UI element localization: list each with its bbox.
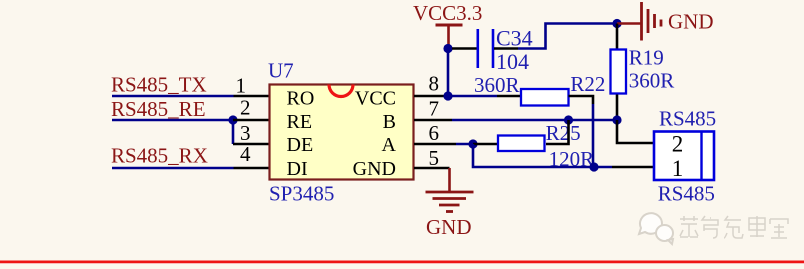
svg-text:RE: RE: [287, 111, 313, 133]
wire A net pin6 to junction: [456, 143, 473, 146]
connector RS485 body: [654, 131, 714, 182]
svg-text:RS485: RS485: [658, 181, 715, 205]
wire pin8 row to R22: [448, 95, 497, 98]
pin 5 stub: [414, 167, 450, 170]
svg-text:RS485_TX: RS485_TX: [111, 73, 207, 97]
svg-text:A: A: [382, 134, 397, 156]
resistor R19 top pin: [616, 24, 619, 49]
svg-text:2: 2: [672, 132, 684, 157]
pin 7 stub: [414, 119, 452, 122]
node VCC junction: [443, 44, 452, 53]
wire A to connector pin1: [612, 166, 653, 169]
pin 4 stub: [234, 167, 270, 170]
svg-text:SP3485: SP3485: [269, 182, 334, 206]
resistor R19 bottom pin: [616, 95, 619, 121]
resistor R25 right stub up to B: [546, 120, 569, 144]
bottom red separator line: [0, 261, 804, 264]
wire VCC down to pin8: [447, 49, 450, 97]
svg-text:2: 2: [240, 96, 251, 120]
junction dot RE/DE: [228, 115, 237, 124]
svg-text:R25: R25: [546, 121, 581, 145]
junction dot B and R19: [612, 115, 621, 124]
svg-text:U7: U7: [268, 59, 294, 83]
op-amp U1 chip body SP3485 U7: [270, 85, 414, 180]
pin 1 stub: [234, 95, 270, 98]
svg-text:RS485_RX: RS485_RX: [111, 144, 208, 168]
resistor R25 left stub: [473, 143, 497, 146]
wire A elbow down and right: [473, 144, 612, 167]
junction dot A: [468, 139, 477, 148]
chip notch arc: [329, 85, 353, 97]
wire branch RE to pin3: [232, 120, 235, 144]
junction dot top rail: [612, 19, 621, 28]
pin 3 stub: [233, 143, 269, 146]
svg-text:1: 1: [236, 74, 247, 98]
svg-text:GND: GND: [668, 10, 714, 34]
svg-text:C34: C34: [496, 25, 533, 50]
wire C34 to top rail: [518, 24, 617, 49]
svg-text:DI: DI: [287, 158, 308, 180]
svg-text:360R: 360R: [474, 73, 520, 97]
svg-text:360R: 360R: [629, 69, 675, 93]
svg-text:104: 104: [496, 49, 529, 74]
svg-text:R22: R22: [570, 72, 605, 96]
watermark wechat icon: [639, 213, 673, 244]
wire B to connector pin2: [617, 120, 653, 143]
svg-text:R19: R19: [629, 46, 664, 70]
wire net RS485_RE to pin2: [112, 119, 233, 122]
svg-text:RS485: RS485: [659, 106, 716, 130]
svg-text:GND: GND: [426, 215, 472, 239]
svg-text:VCC: VCC: [355, 87, 396, 109]
svg-text:4: 4: [240, 142, 251, 166]
resistor R22 left stub: [497, 95, 521, 98]
ground symbol sideways: [642, 2, 662, 41]
svg-text:1: 1: [672, 156, 684, 181]
wire R22 down to A net: [592, 104, 595, 167]
svg-text:GND: GND: [353, 158, 396, 180]
watermark text 菜鸟充电宝: [680, 216, 788, 238]
ground GND top-right stub: [617, 22, 641, 25]
svg-text:B: B: [383, 111, 396, 133]
capacitor C34 plates: [478, 29, 493, 68]
resistor R19 body: [611, 50, 627, 94]
ground wire from pin5: [448, 168, 451, 192]
svg-text:7: 7: [429, 97, 440, 121]
wire B net pin7 row: [452, 119, 617, 122]
svg-text:6: 6: [429, 121, 440, 145]
svg-text:RO: RO: [287, 87, 315, 109]
ground symbol bottom: [426, 192, 474, 212]
resistor R22 body: [521, 89, 569, 106]
svg-text:5: 5: [429, 146, 440, 170]
wire net RS485_RX to pin4: [112, 167, 234, 170]
junction dot B and R25: [564, 115, 573, 124]
wire net RS485_TX to pin1: [112, 95, 234, 98]
pin 6 stub: [414, 143, 456, 146]
capacitor C34 right stub: [494, 47, 518, 50]
pin 2 stub: [233, 119, 269, 122]
capacitor C3 left stub: [452, 47, 477, 50]
resistor R25 body: [498, 136, 545, 152]
resistor R22 right stub elbow: [569, 96, 594, 104]
svg-text:8: 8: [429, 72, 440, 96]
svg-text:RS485_RE: RS485_RE: [111, 97, 206, 121]
power VCC3.3 bar symbol: [436, 25, 463, 48]
pin 8 stub: [414, 95, 448, 98]
junction dot pin8: [443, 91, 452, 100]
junction dot A and R22: [589, 162, 598, 171]
svg-text:DE: DE: [287, 134, 314, 156]
svg-text:VCC3.3: VCC3.3: [413, 1, 482, 25]
